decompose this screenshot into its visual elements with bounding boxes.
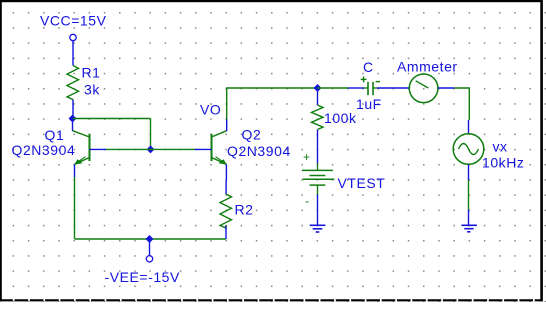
ammeter U1 bbox=[409, 74, 438, 103]
wire Q1 emitter down bbox=[74, 177, 76, 239]
resistor R1 bbox=[67, 66, 79, 100]
wire Q2 emitter to R2 bbox=[225, 181, 227, 195]
svg-text:R1: R1 bbox=[82, 65, 101, 81]
node junction dot D (VO net) bbox=[314, 84, 322, 92]
node junction dot B (base net) bbox=[147, 145, 155, 153]
svg-text:Q2: Q2 bbox=[242, 127, 262, 143]
svg-text:C: C bbox=[363, 59, 374, 75]
svg-text:10kHz: 10kHz bbox=[482, 155, 524, 171]
VCC pin wire (blue) bbox=[72, 41, 74, 66]
wire VTEST to ground (blue) bbox=[317, 195, 319, 226]
ground (vx) bbox=[461, 225, 477, 232]
svg-text:VCC=15V: VCC=15V bbox=[40, 13, 107, 29]
svg-text:vx: vx bbox=[493, 139, 508, 155]
svg-text:-: - bbox=[305, 194, 310, 208]
svg-text:VO: VO bbox=[200, 102, 221, 118]
svg-text:100k: 100k bbox=[324, 110, 357, 126]
svg-text:Q2N3904: Q2N3904 bbox=[12, 142, 76, 158]
vx bottom pin (blue) bbox=[468, 164, 470, 180]
capacitor C bbox=[361, 77, 380, 96]
source vx bbox=[453, 134, 484, 165]
svg-text:Q2N3904: Q2N3904 bbox=[227, 143, 291, 159]
frame left border bbox=[0, 0, 2, 301]
resistor 100k bottom pin (blue) bbox=[317, 130, 319, 164]
ground (VTEST) bbox=[310, 225, 326, 232]
wire down to base junction bbox=[150, 119, 152, 150]
resistor 100k top pin (blue) bbox=[317, 88, 319, 105]
svg-text:3k: 3k bbox=[84, 82, 100, 98]
svg-text:+: + bbox=[303, 150, 311, 164]
resistor R1 bottom pin (blue) bbox=[72, 100, 74, 119]
VTEST battery bbox=[302, 150, 334, 208]
wire bottom rail bbox=[75, 238, 227, 240]
frame top border bbox=[0, 0, 543, 2]
resistor R2 bbox=[220, 194, 232, 228]
capacitor C right pin to ammeter (blue) bbox=[377, 87, 409, 89]
wire base net Q1 to Q2 bbox=[106, 148, 195, 150]
capacitor C left pin (blue) bbox=[348, 87, 364, 89]
VCC port terminal circle bbox=[70, 34, 76, 40]
transistor Q1 (mirrored NPN) bbox=[73, 119, 107, 177]
svg-text:-VEE=-15V: -VEE=-15V bbox=[105, 269, 180, 285]
vx top pin (blue) bbox=[468, 120, 470, 134]
frame right border bbox=[540, 0, 543, 301]
ammeter right pin (blue) bbox=[438, 87, 454, 89]
node junction dot A (R1 bottom) bbox=[69, 115, 77, 123]
wire VO net to capacitor bbox=[318, 87, 349, 89]
resistor 100k bbox=[312, 105, 324, 130]
svg-text:Ammeter: Ammeter bbox=[397, 59, 458, 75]
wire from node A to the right bbox=[73, 118, 151, 120]
frame bottom border (dashed) bbox=[0, 299, 543, 301]
wire Q2 collector to VO net bbox=[227, 88, 318, 120]
svg-text:1uF: 1uF bbox=[356, 96, 382, 112]
svg-text:R2: R2 bbox=[235, 202, 254, 218]
svg-text:Q1: Q1 bbox=[45, 127, 65, 143]
transistor Q2 (NPN) bbox=[195, 120, 227, 181]
ground pin (blue) bbox=[468, 210, 470, 226]
-VEE stub wire bbox=[149, 239, 151, 256]
wire ammeter to vx bbox=[454, 88, 469, 120]
resistor R2 bottom pin (blue) bbox=[225, 226, 227, 239]
wire vx to ground bbox=[468, 180, 470, 210]
node junction dot C (bottom rail) bbox=[146, 235, 154, 243]
-VEE port terminal circle bbox=[146, 256, 152, 262]
svg-text:VTEST: VTEST bbox=[338, 175, 386, 191]
